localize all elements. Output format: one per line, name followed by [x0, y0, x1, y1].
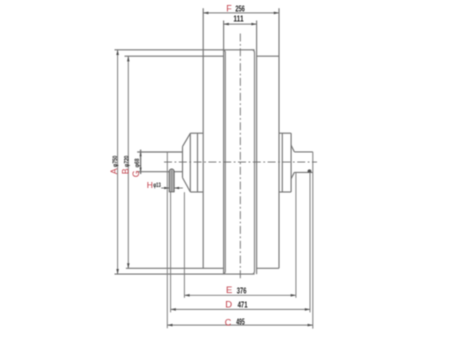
svg-text:E: E	[226, 285, 232, 296]
svg-text:C: C	[225, 317, 232, 327]
svg-text:F: F	[226, 4, 232, 14]
svg-text:111: 111	[233, 15, 244, 24]
svg-text:495: 495	[236, 318, 245, 327]
svg-text:256: 256	[235, 4, 245, 13]
svg-text:φ13: φ13	[153, 182, 161, 189]
svg-text:D: D	[225, 300, 232, 311]
svg-text:H: H	[147, 180, 153, 190]
svg-text:376: 376	[237, 286, 247, 295]
svg-text:471: 471	[238, 300, 249, 309]
